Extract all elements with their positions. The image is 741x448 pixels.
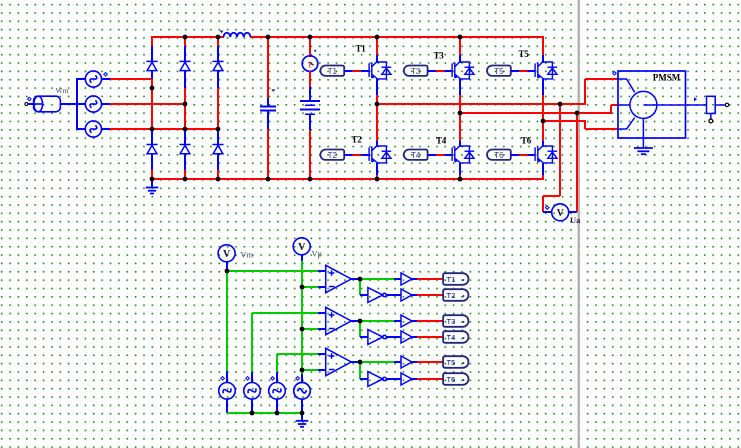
junction (358, 277, 363, 282)
junction (216, 35, 221, 40)
wire gate T6 (511, 154, 536, 156)
wire comp1 plus (227, 270, 319, 272)
junction (225, 269, 230, 274)
wire (151, 170, 153, 180)
wire (459, 36, 461, 56)
wire (184, 170, 186, 180)
svg-text:T3: T3 (447, 317, 456, 326)
wire phase U (377, 79, 618, 105)
wire (217, 88, 219, 132)
gate block T6 (487, 150, 511, 161)
wire (394, 278, 401, 280)
wire battery branch (309, 36, 311, 57)
junction (300, 327, 305, 332)
svg-text:Vp: Vp (312, 249, 322, 259)
svg-text:T6: T6 (447, 375, 456, 384)
inverter gate U6 (368, 372, 386, 387)
transistor T4 (452, 146, 474, 163)
svg-text:T1: T1 (447, 275, 456, 284)
wire (542, 175, 544, 180)
voltmeter Vp (293, 238, 310, 255)
wire (217, 170, 219, 180)
junction (358, 319, 363, 324)
junction (216, 127, 221, 132)
wire (184, 71, 186, 88)
wire comp2 minus (302, 328, 319, 330)
ammeter A1 (302, 50, 318, 72)
wire leg 3 (217, 37, 219, 47)
svg-text:T4: T4 (436, 135, 447, 145)
svg-text:Ua: Ua (570, 215, 581, 225)
wire (376, 79, 378, 96)
junction (458, 35, 463, 40)
source Va (219, 377, 236, 400)
svg-text:T5: T5 (494, 67, 504, 76)
node load ref (709, 119, 713, 123)
junction (183, 177, 188, 182)
wire (351, 320, 360, 322)
wire (252, 313, 319, 372)
wire comp3 minus (302, 369, 319, 371)
ground (634, 148, 653, 154)
motor PMSM (618, 71, 707, 148)
wire (360, 294, 368, 296)
wire (459, 79, 461, 96)
wire (101, 128, 110, 130)
wire (217, 46, 219, 62)
wire (417, 294, 443, 296)
buffer gate T3 (401, 315, 412, 327)
buffer gate T5 (401, 356, 412, 368)
wire (184, 46, 186, 62)
junction (300, 368, 305, 373)
wire (184, 131, 186, 145)
svg-text:T6: T6 (494, 151, 504, 160)
junction (183, 102, 188, 107)
diode D3 (212, 61, 223, 70)
junction (308, 35, 313, 40)
ground (296, 413, 309, 427)
source VSC (85, 121, 101, 137)
wire (386, 294, 401, 296)
junction (575, 111, 580, 116)
output block T1 (443, 273, 468, 285)
wire Vm net (226, 271, 228, 371)
wire (412, 320, 417, 322)
svg-text:Wm: Wm (56, 86, 69, 95)
wire (151, 154, 153, 171)
svg-text:T3: T3 (411, 67, 421, 76)
buffer gate T2 (401, 289, 412, 301)
diode D1 (146, 61, 157, 70)
wire (318, 312, 326, 314)
svg-text:T1: T1 (328, 67, 338, 76)
junction (300, 411, 305, 416)
wire (542, 121, 544, 142)
wire (376, 163, 378, 176)
wire (412, 336, 417, 338)
wire (569, 211, 577, 213)
wire (217, 71, 219, 88)
junction (266, 35, 271, 40)
wire gate T5 (511, 70, 536, 72)
wire (359, 279, 361, 295)
wire (309, 87, 311, 101)
wire (459, 163, 461, 176)
buffer gate T6 (401, 373, 412, 385)
wire three-phase bus (77, 78, 85, 130)
svg-text:T6: T6 (521, 135, 532, 145)
wire (542, 163, 544, 176)
transistor T2 (369, 146, 391, 163)
op-amp comparator U1 (326, 265, 352, 292)
wire (376, 55, 378, 63)
wire (542, 55, 544, 63)
inverter gate U5 (368, 330, 386, 345)
wire (318, 286, 326, 288)
output block T4 (443, 331, 468, 343)
svg-text:T1: T1 (355, 43, 366, 53)
svg-text:T2: T2 (328, 151, 338, 160)
wire (60, 103, 77, 105)
wire comp1 minus (302, 286, 319, 288)
wire (101, 78, 110, 80)
junction (300, 285, 305, 290)
wire DC link cap branch (267, 36, 269, 99)
wire (412, 378, 417, 380)
wire (360, 378, 368, 380)
junction (275, 411, 280, 416)
diode D6 (212, 145, 223, 154)
junction (375, 177, 380, 182)
svg-text:T5: T5 (447, 358, 456, 367)
speed sensor Wm (28, 96, 61, 112)
wire leg 2 (184, 37, 186, 47)
wire (151, 131, 153, 145)
wire (459, 55, 461, 63)
svg-text:Vm: Vm (240, 250, 253, 260)
buffer gate T4 (401, 331, 412, 343)
load block (707, 96, 726, 119)
wire (226, 262, 228, 270)
wire reference return (227, 412, 302, 414)
wire (386, 336, 401, 338)
wire (542, 95, 544, 121)
gate block T1 (320, 66, 344, 77)
wire (184, 154, 186, 171)
inductor L1 (220, 31, 251, 38)
wire (360, 320, 394, 322)
wire (301, 255, 303, 262)
wire phase W (543, 121, 618, 129)
transistor T5 (535, 62, 557, 79)
diode D4 (146, 145, 157, 154)
junction (266, 177, 271, 182)
wire (151, 46, 153, 62)
wire (543, 211, 552, 213)
svg-text:T4: T4 (447, 333, 456, 342)
wire (151, 79, 153, 132)
wire phase A (110, 78, 153, 80)
wire (576, 113, 578, 212)
junction (150, 177, 155, 182)
wire (417, 278, 443, 280)
marker shaft arrow (694, 97, 697, 101)
junction (375, 35, 380, 40)
capacitor C1 (260, 89, 276, 130)
wire (376, 36, 378, 56)
svg-text:T5: T5 (518, 49, 529, 59)
wire (101, 103, 110, 105)
wire (394, 320, 401, 322)
wire (376, 175, 378, 180)
transistor T1 (369, 62, 391, 79)
output block T3 (443, 315, 468, 327)
wire (417, 361, 443, 363)
junction (375, 102, 380, 107)
wire (277, 354, 319, 372)
output block T6 (443, 373, 468, 385)
wire (412, 294, 417, 296)
svg-text:T4: T4 (411, 151, 421, 160)
wire (217, 154, 219, 171)
junction (150, 86, 155, 91)
wire (459, 113, 461, 142)
gate block T5 (487, 66, 511, 77)
wire (417, 320, 443, 322)
wire gate T3 (427, 70, 452, 72)
wire phase V (460, 105, 618, 113)
node shaft out (725, 103, 728, 106)
wire gate T1 (344, 70, 369, 72)
wire (459, 175, 461, 180)
wire (28, 103, 34, 105)
wire (417, 336, 443, 338)
transistor T3 (452, 62, 474, 79)
wire (276, 399, 278, 413)
junction (183, 35, 188, 40)
wire (360, 361, 394, 363)
wire (301, 374, 303, 383)
wire (318, 270, 326, 272)
buffer gate T1 (401, 273, 412, 285)
wire DC top rail (151, 36, 544, 56)
junction (458, 111, 463, 116)
wire gate T2 (344, 154, 369, 156)
source VSB (85, 96, 101, 112)
source VDC (300, 101, 320, 131)
wire (459, 95, 461, 113)
wire (318, 369, 326, 371)
wire (309, 71, 311, 88)
gate block T3 (404, 66, 428, 77)
wire (360, 278, 394, 280)
wire (351, 361, 360, 363)
wire (542, 36, 544, 56)
wire (376, 95, 378, 104)
wire gate T4 (427, 154, 452, 156)
wire (251, 399, 253, 413)
wire (412, 278, 417, 280)
source Vc (269, 377, 286, 400)
wire (184, 88, 186, 132)
transistor T6 (535, 146, 557, 163)
wire Vp net (301, 261, 303, 374)
svg-text:T2: T2 (447, 291, 456, 300)
junction (183, 127, 188, 132)
wire (301, 399, 303, 413)
wire (309, 130, 311, 180)
wire (318, 328, 326, 330)
wire (359, 362, 361, 379)
source Vb (244, 377, 261, 400)
gate block T2 (320, 150, 344, 161)
diode D5 (179, 145, 190, 154)
source VSA (85, 71, 107, 87)
wire (376, 141, 378, 147)
wire (151, 71, 153, 79)
wire phase B (110, 103, 186, 105)
voltmeter Ua (545, 204, 568, 221)
gate block T4 (404, 150, 428, 161)
wire phase C (110, 128, 219, 130)
junction (558, 102, 563, 107)
voltmeter Vm (218, 245, 235, 262)
wire (386, 378, 401, 380)
diode D2 (179, 61, 190, 70)
junction (541, 119, 546, 124)
junction (308, 177, 313, 182)
junction (150, 127, 155, 132)
junction (250, 411, 255, 416)
wire bottom rail (151, 178, 544, 180)
wire (226, 399, 228, 413)
wire (543, 104, 560, 212)
svg-text:T2: T2 (351, 134, 362, 144)
output block T2 (443, 289, 468, 301)
wire (359, 321, 361, 337)
ground (146, 179, 159, 194)
wire (459, 141, 461, 147)
wire (360, 336, 368, 338)
wire (542, 79, 544, 96)
wire (226, 371, 228, 383)
wire leg 1 (151, 37, 153, 47)
inverter gate U4 (368, 288, 386, 303)
wire (542, 141, 544, 147)
wire (394, 361, 401, 363)
wire ref B net (251, 371, 253, 383)
wire (376, 104, 378, 142)
wire (351, 278, 360, 280)
junction (458, 177, 463, 182)
junction (216, 177, 221, 182)
wire (417, 378, 443, 380)
svg-text:PMSM: PMSM (653, 73, 681, 83)
wire (412, 361, 417, 363)
wire (318, 353, 326, 355)
source Vtri (294, 377, 311, 400)
wire (267, 129, 269, 180)
node input terminal (25, 103, 28, 106)
wire ref C net (276, 371, 278, 383)
svg-text:T3: T3 (433, 50, 444, 60)
junction (358, 360, 363, 365)
wire (217, 131, 219, 145)
op-amp comparator U2 (326, 307, 352, 334)
output block T5 (443, 356, 468, 368)
op-amp comparator U3 (326, 348, 352, 375)
